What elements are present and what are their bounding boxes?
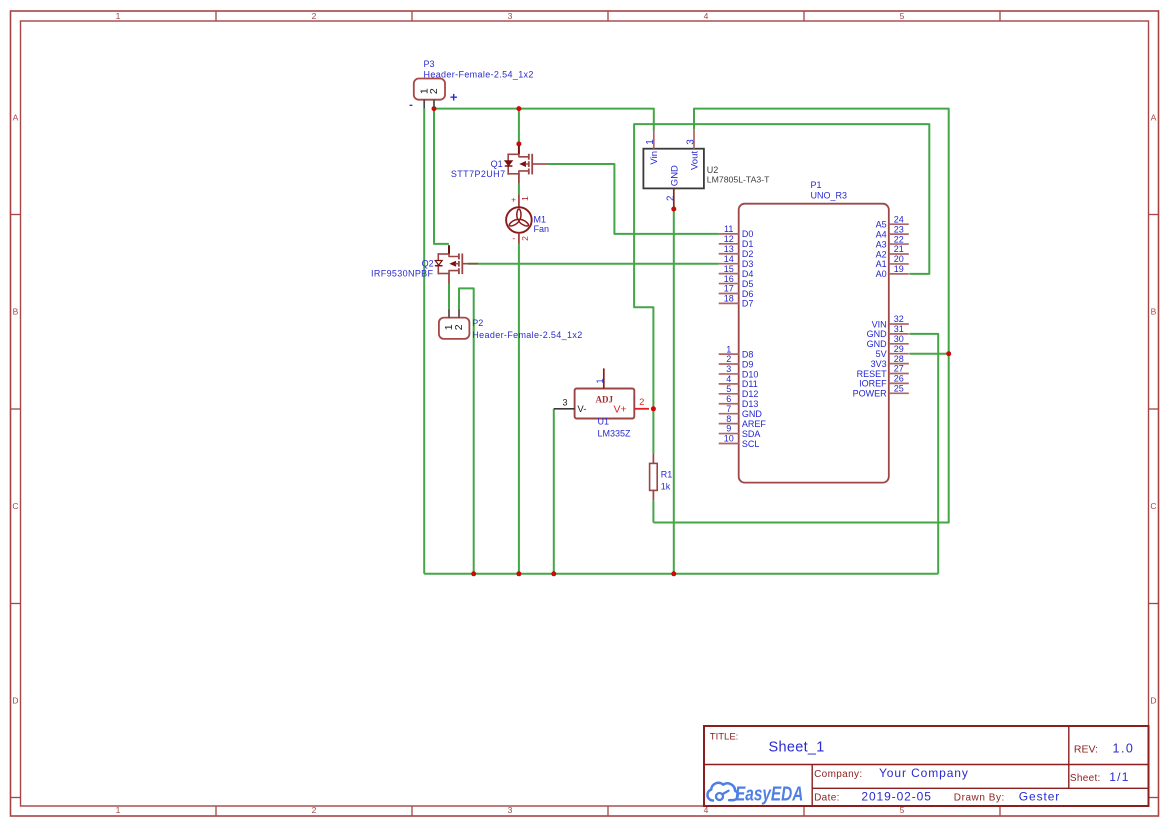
- pin 14 D3: [719, 254, 754, 269]
- svg-text:C: C: [12, 501, 18, 511]
- pin 8 AREF: [719, 414, 767, 429]
- svg-text:Fan: Fan: [534, 224, 550, 234]
- svg-text:3V3: 3V3: [871, 359, 887, 369]
- svg-text:EasyEDA: EasyEDA: [735, 783, 803, 805]
- svg-text:Vout: Vout: [689, 151, 700, 170]
- svg-text:ADJ: ADJ: [596, 394, 614, 404]
- svg-text:14: 14: [724, 254, 734, 264]
- pin 15 D4: [719, 264, 754, 279]
- svg-text:18: 18: [724, 294, 734, 304]
- pin 25 POWER: [853, 384, 909, 399]
- svg-text:1: 1: [645, 139, 656, 144]
- wire: ground rail up to P1 GND pin 31: [909, 334, 938, 574]
- svg-text:20: 20: [894, 254, 904, 264]
- pin 4 D11: [719, 374, 758, 389]
- svg-text:24: 24: [894, 214, 904, 224]
- svg-text:2019-02-05: 2019-02-05: [861, 790, 931, 804]
- svg-text:28: 28: [894, 354, 904, 364]
- svg-text:R1: R1: [661, 469, 673, 479]
- pin 3 D10: [719, 364, 759, 379]
- svg-text:A1: A1: [876, 259, 887, 269]
- wire: Q1 gate to P1 D0 pin 11: [548, 164, 719, 234]
- svg-text:30: 30: [894, 334, 904, 344]
- svg-text:+: +: [450, 89, 458, 104]
- svg-text:D12: D12: [742, 389, 759, 399]
- wire: P3.1 minus down to ground rail: [423, 109, 425, 574]
- svg-text:D6: D6: [742, 289, 754, 299]
- wire: P2.2 to ground rail: [459, 288, 474, 573]
- pin 20 A1: [876, 254, 909, 269]
- sensor U1 LM335Z: [554, 368, 649, 438]
- svg-text:A: A: [13, 113, 19, 123]
- svg-text:22: 22: [894, 234, 904, 244]
- transistor Q2 IRF9530NPBF (P-MOSFET): [435, 245, 478, 283]
- svg-text:Q1: Q1: [491, 159, 503, 169]
- junction: 5V tap on Vout net: [946, 351, 951, 356]
- svg-text:A3: A3: [876, 239, 887, 249]
- svg-text:U2: U2: [707, 165, 719, 175]
- svg-text:Sheet:: Sheet:: [1070, 773, 1101, 784]
- pin 28 3V3: [871, 354, 909, 369]
- svg-text:5V: 5V: [876, 349, 887, 359]
- svg-text:29: 29: [894, 344, 904, 354]
- svg-text:A4: A4: [876, 229, 887, 239]
- svg-text:SCL: SCL: [742, 439, 760, 449]
- svg-text:Sheet_1: Sheet_1: [769, 740, 825, 756]
- svg-text:D7: D7: [742, 299, 754, 309]
- pin 29 5V: [876, 344, 909, 359]
- EasyEDA logo: [707, 783, 803, 805]
- svg-text:12: 12: [724, 234, 734, 244]
- svg-text:13: 13: [724, 244, 734, 254]
- pin 16 D5: [719, 274, 754, 289]
- svg-text:Drawn By:: Drawn By:: [954, 793, 1005, 804]
- svg-text:VIN: VIN: [872, 319, 887, 329]
- svg-text:D: D: [1150, 696, 1156, 706]
- pin 22 A3: [876, 234, 909, 249]
- svg-text:UNO_R3: UNO_R3: [811, 191, 848, 201]
- svg-text:9: 9: [726, 424, 731, 434]
- pin 18 D7: [719, 294, 754, 309]
- svg-text:Company:: Company:: [814, 769, 862, 780]
- svg-text:Header-Female-2.54_1x2: Header-Female-2.54_1x2: [424, 70, 534, 80]
- svg-text:17: 17: [724, 284, 734, 294]
- junction: ground rail U1 V-: [551, 571, 556, 576]
- pin 13 D2: [719, 244, 754, 259]
- svg-text:A5: A5: [876, 220, 887, 230]
- junction: V+ node: [651, 406, 656, 411]
- wire: P1 5V pin 29 tap: [909, 353, 948, 355]
- svg-text:3: 3: [508, 11, 513, 21]
- svg-text:8: 8: [726, 414, 731, 424]
- resistor R1 1k: [650, 454, 673, 501]
- pin 10 SCL: [719, 434, 760, 449]
- svg-text:3: 3: [726, 364, 731, 374]
- pin 27 RESET: [857, 364, 909, 379]
- svg-text:3: 3: [508, 805, 513, 815]
- title block: [704, 726, 1149, 806]
- svg-text:Header-Female-2.54_1x2: Header-Female-2.54_1x2: [472, 330, 582, 340]
- junction: ground rail U2 GND: [671, 571, 676, 576]
- wire: Q2 source to P2.1: [448, 283, 450, 308]
- svg-text:2: 2: [312, 805, 317, 815]
- svg-text:B: B: [13, 307, 19, 317]
- wire: U2 GND pin 2 down to ground rail: [673, 209, 675, 574]
- svg-text:-: -: [409, 99, 413, 111]
- svg-text:21: 21: [894, 244, 904, 254]
- svg-text:POWER: POWER: [853, 389, 888, 399]
- svg-text:D11: D11: [742, 379, 758, 389]
- svg-text:P2: P2: [472, 318, 483, 328]
- wire: R1 bottom segment: [652, 500, 654, 522]
- pin 21 A2: [876, 244, 909, 259]
- svg-text:23: 23: [894, 224, 904, 234]
- svg-text:A2: A2: [876, 249, 887, 259]
- transistor Q1 STT7P2UH7 (P-MOSFET): [505, 146, 548, 184]
- junction: Q1 drain branch: [516, 106, 521, 111]
- svg-text:5: 5: [726, 384, 731, 394]
- svg-text:2: 2: [666, 196, 677, 201]
- svg-text:GND: GND: [867, 329, 888, 339]
- pin 30 GND: [867, 334, 909, 349]
- junction: ground rail fan: [516, 571, 521, 576]
- wire: ground bottom rail: [424, 573, 938, 575]
- svg-text:26: 26: [894, 374, 904, 384]
- svg-text:GND: GND: [867, 339, 888, 349]
- svg-text:2: 2: [312, 11, 317, 21]
- svg-text:2: 2: [453, 324, 465, 330]
- svg-text:D0: D0: [742, 229, 754, 239]
- svg-text:Gester: Gester: [1019, 790, 1060, 804]
- svg-text:D1: D1: [742, 239, 754, 249]
- pin 6 D13: [719, 394, 759, 409]
- svg-text:Q2: Q2: [422, 258, 434, 268]
- pin 9 SDA: [719, 424, 761, 439]
- junction: Q1 drain pin: [516, 141, 521, 146]
- pin 23 A4: [876, 224, 909, 239]
- junction: P3.2 node: [432, 106, 437, 111]
- svg-text:1/1: 1/1: [1109, 770, 1130, 784]
- pin 12 D1: [719, 234, 754, 249]
- wire: U1 V- pin 3 down to ground rail: [553, 409, 555, 574]
- svg-text:1: 1: [595, 378, 605, 383]
- svg-text:D3: D3: [742, 259, 754, 269]
- wire: fan M1 pin 2 down to ground rail: [518, 244, 520, 574]
- svg-text:7: 7: [726, 404, 731, 414]
- svg-text:Your Company: Your Company: [879, 766, 969, 780]
- svg-text:15: 15: [724, 264, 734, 274]
- svg-text:LM335Z: LM335Z: [598, 428, 632, 438]
- svg-text:16: 16: [724, 274, 734, 284]
- svg-text:P1: P1: [811, 180, 822, 190]
- svg-text:IOREF: IOREF: [859, 379, 887, 389]
- svg-text:+: +: [511, 194, 516, 204]
- svg-text:31: 31: [894, 324, 904, 334]
- svg-text:A0: A0: [876, 269, 887, 279]
- svg-text:IRF9530NPBF: IRF9530NPBF: [371, 269, 434, 279]
- svg-text:Date:: Date:: [814, 793, 840, 804]
- svg-text:STT7P2UH7: STT7P2UH7: [451, 169, 506, 179]
- pin 26 IOREF: [859, 374, 909, 389]
- svg-text:1k: 1k: [661, 481, 671, 491]
- svg-text:5: 5: [900, 11, 905, 21]
- svg-text:C: C: [1150, 501, 1156, 511]
- svg-text:2: 2: [428, 88, 440, 94]
- svg-text:D8: D8: [742, 349, 754, 359]
- wire: plus rail down to Q2 drain: [434, 109, 449, 244]
- svg-text:1: 1: [726, 344, 731, 354]
- svg-text:4: 4: [704, 11, 709, 21]
- svg-text:LM7805L-TA3-T: LM7805L-TA3-T: [707, 174, 770, 184]
- motor/fan M1: [506, 194, 549, 243]
- svg-text:11: 11: [724, 224, 733, 234]
- pin 32 VIN: [872, 314, 909, 329]
- wire: P3.2 plus rail to U2 Vin: [434, 109, 654, 131]
- svg-text:6: 6: [726, 394, 731, 404]
- svg-text:GND: GND: [742, 409, 763, 419]
- svg-text:2: 2: [520, 236, 530, 241]
- svg-text:AREF: AREF: [742, 419, 767, 429]
- wire: P1 A0 pin 19 to U1 V+ node: [634, 124, 929, 409]
- wire: Q1 source to fan M1 pin 1: [518, 184, 520, 195]
- svg-text:D: D: [12, 696, 18, 706]
- svg-text:D5: D5: [742, 279, 754, 289]
- svg-text:3: 3: [686, 139, 697, 145]
- junction: ground rail P2.2: [471, 571, 476, 576]
- pin 17 D6: [719, 284, 754, 299]
- connector P3 Header-Female-2.54_1x2: [414, 59, 534, 109]
- pin 7 GND: [719, 404, 763, 419]
- svg-text:1.0: 1.0: [1113, 742, 1135, 756]
- pin 5 D12: [719, 384, 759, 399]
- pin 24 A5: [876, 214, 909, 229]
- svg-text:RESET: RESET: [857, 369, 888, 379]
- svg-text:GND: GND: [670, 165, 681, 186]
- svg-text:V+: V+: [614, 404, 627, 416]
- svg-text:1: 1: [116, 805, 121, 815]
- svg-text:U1: U1: [598, 417, 610, 427]
- svg-text:2: 2: [726, 354, 731, 364]
- svg-text:M1: M1: [534, 215, 547, 225]
- wire: branch down to Q1 drain: [518, 109, 520, 144]
- svg-text:27: 27: [894, 364, 904, 374]
- svg-text:SDA: SDA: [742, 429, 761, 439]
- svg-text:B: B: [1151, 307, 1157, 317]
- svg-text:10: 10: [724, 434, 734, 444]
- mcu board P1 UNO_R3: [739, 180, 889, 483]
- svg-text:-: -: [512, 234, 515, 244]
- pin 19 A0: [876, 264, 909, 279]
- wire: V+ node down to R1 top: [652, 409, 654, 454]
- svg-text:D2: D2: [742, 249, 754, 259]
- pin 2 D9: [719, 354, 754, 369]
- pin 31 GND: [867, 324, 909, 339]
- svg-text:1: 1: [520, 196, 530, 201]
- svg-text:D10: D10: [742, 369, 759, 379]
- svg-text:D13: D13: [742, 399, 759, 409]
- svg-text:1: 1: [116, 11, 121, 21]
- junction: U2 GND pin: [671, 207, 676, 212]
- svg-text:REV:: REV:: [1074, 744, 1098, 756]
- connector P2 Header-Female-2.54_1x2: [439, 309, 583, 340]
- pin 11 D0: [719, 224, 754, 239]
- wire: U2 Vout 5V net down to R1 bottom: [653, 109, 948, 523]
- svg-text:4: 4: [726, 374, 731, 384]
- svg-text:P3: P3: [424, 59, 435, 69]
- svg-text:32: 32: [894, 314, 904, 324]
- svg-text:25: 25: [894, 384, 904, 394]
- svg-text:V-: V-: [577, 404, 586, 415]
- svg-text:A: A: [1151, 113, 1157, 123]
- svg-text:2: 2: [639, 397, 644, 408]
- svg-text:D4: D4: [742, 269, 754, 279]
- svg-text:D9: D9: [742, 359, 754, 369]
- wire: Q2 gate to P1 D3 pin 14: [468, 263, 719, 265]
- svg-text:Vin: Vin: [649, 151, 660, 165]
- svg-text:TITLE:: TITLE:: [710, 732, 739, 743]
- pin 1 D8: [719, 344, 754, 359]
- svg-text:19: 19: [894, 264, 904, 274]
- regulator U2 LM7805L-TA3-T: [643, 130, 770, 209]
- svg-text:3: 3: [562, 397, 567, 407]
